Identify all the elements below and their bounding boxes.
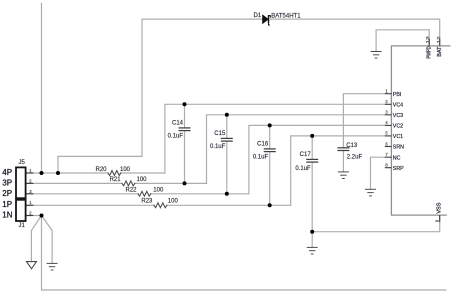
svg-text:100: 100 xyxy=(153,188,164,194)
IC U1 box (cropped at right) xyxy=(391,46,449,215)
connector pin stubs J5/J1 xyxy=(26,173,34,216)
wire VC3 xyxy=(207,115,386,184)
capacitor C13 xyxy=(337,148,349,151)
svg-text:1P: 1P xyxy=(2,200,12,209)
earth triangle at 1N xyxy=(27,262,37,269)
wire 1N to gnd bars xyxy=(42,216,53,264)
svg-text:SRN: SRN xyxy=(393,145,404,151)
resistor R22 xyxy=(138,191,151,196)
svg-text:C14: C14 xyxy=(172,121,184,127)
svg-text:1N: 1N xyxy=(2,210,12,219)
wire 3P row xyxy=(26,182,122,184)
svg-text:C17: C17 xyxy=(300,152,312,158)
node C14 bottom xyxy=(183,181,187,185)
svg-text:NC: NC xyxy=(393,155,401,161)
capacitor C14 xyxy=(179,128,191,131)
node 4P-top junction xyxy=(40,171,44,175)
wire 4P corner jog xyxy=(58,19,263,173)
resistor R21 xyxy=(122,181,135,186)
capacitor C15 xyxy=(221,138,233,141)
svg-text:2.2uF: 2.2uF xyxy=(347,155,363,161)
svg-text:D1: D1 xyxy=(254,13,262,19)
wire C17 leads xyxy=(311,136,313,160)
svg-text:BAT54HT1: BAT54HT1 xyxy=(271,13,301,19)
svg-text:C16: C16 xyxy=(257,141,269,147)
wire 1N to bottom rail xyxy=(42,216,447,291)
wire PWPD pin 13 to ground xyxy=(376,30,429,52)
wire 4P row xyxy=(26,172,108,174)
svg-text:BAT: BAT xyxy=(437,46,443,56)
wire C14 leads xyxy=(184,104,186,128)
wire 1N row xyxy=(26,215,42,217)
svg-text:0.1uF: 0.1uF xyxy=(253,155,269,161)
svg-text:100: 100 xyxy=(137,177,148,183)
node C15 bottom xyxy=(225,192,229,196)
capacitor C17 xyxy=(306,159,318,162)
svg-text:C13: C13 xyxy=(346,143,358,149)
IC pin names xyxy=(393,92,404,172)
wire 1N to earth triangle xyxy=(31,216,41,262)
svg-text:0.1uF: 0.1uF xyxy=(168,134,184,140)
svg-text:VC3: VC3 xyxy=(393,113,403,119)
svg-text:SRP: SRP xyxy=(393,166,404,172)
svg-text:0.1uF: 0.1uF xyxy=(295,166,311,172)
node C17 top xyxy=(310,134,314,138)
svg-text:J5: J5 xyxy=(19,160,26,166)
svg-text:100: 100 xyxy=(120,167,131,173)
svg-text:4P: 4P xyxy=(2,168,12,177)
IC U1 left pin stubs 1-8 xyxy=(385,94,392,168)
svg-text:13: 13 xyxy=(425,35,430,43)
wire C16 leads xyxy=(269,125,271,148)
capacitor C16 xyxy=(264,149,276,152)
wire VC2 xyxy=(249,125,385,193)
ground at C13 xyxy=(338,172,349,179)
svg-text:PWPD: PWPD xyxy=(427,46,433,59)
svg-text:R20: R20 xyxy=(96,167,108,173)
svg-text:100: 100 xyxy=(168,198,179,204)
node C17 bottom VSS xyxy=(310,230,314,234)
node C16 top xyxy=(268,123,272,127)
svg-text:VSS: VSS xyxy=(437,202,443,214)
svg-text:VC1: VC1 xyxy=(393,134,403,140)
wire top net from 4P up to diode xyxy=(41,3,43,173)
svg-text:0.1uF: 0.1uF xyxy=(210,144,226,150)
wire PBI to C13 xyxy=(343,94,385,148)
resistor R23 xyxy=(154,203,167,208)
IC pin numbers 1-8 xyxy=(385,89,388,168)
node C15 top xyxy=(225,113,229,117)
connector J1 xyxy=(16,200,26,221)
ground bars at 1N xyxy=(47,263,58,270)
ground at VSS rail xyxy=(307,247,318,254)
svg-text:12: 12 xyxy=(436,35,441,43)
connector J5 xyxy=(16,167,26,198)
wire C15 leads xyxy=(226,115,228,139)
svg-text:3P: 3P xyxy=(2,178,12,187)
svg-text:R21: R21 xyxy=(110,177,122,183)
node 4P-corner junction xyxy=(56,171,60,175)
wire VC4 xyxy=(165,104,385,173)
svg-text:J1: J1 xyxy=(19,223,26,229)
ground at NC xyxy=(365,189,376,196)
resistor R20 xyxy=(108,171,121,176)
IC U1 pin stubs 13,12,9 xyxy=(429,39,440,222)
node C14 top xyxy=(183,102,187,106)
svg-text:R22: R22 xyxy=(126,188,138,194)
node 1N junction xyxy=(40,214,44,218)
svg-text:2P: 2P xyxy=(2,189,12,198)
svg-text:VC2: VC2 xyxy=(393,124,403,130)
wire diode cathode to BAT pin 12 xyxy=(270,19,440,46)
svg-text:C15: C15 xyxy=(214,131,226,137)
wire 1P row xyxy=(26,204,154,206)
wire VC1 xyxy=(291,136,385,205)
ground at PWPD xyxy=(371,52,382,59)
svg-text:PBI: PBI xyxy=(393,92,402,98)
svg-text:VC4: VC4 xyxy=(393,103,403,109)
node C16 bottom xyxy=(268,203,272,207)
wire NC to ground xyxy=(371,157,386,189)
diode D1 BAT54HT1 xyxy=(263,15,271,25)
svg-text:R23: R23 xyxy=(141,198,153,204)
wire 2P row xyxy=(26,193,138,195)
wire VSS rail to pin 9 xyxy=(312,215,440,232)
wire C13 to ground xyxy=(342,151,344,172)
